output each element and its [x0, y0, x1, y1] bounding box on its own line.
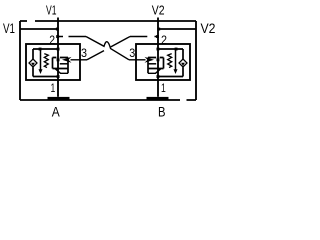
- wire V2 port line: [158, 28, 196, 30]
- arrowhead CB1 relief flow down: [39, 69, 43, 74]
- wire CB2 relief flow arrow line: [175, 49, 177, 70]
- svg-text:1: 1: [161, 81, 166, 95]
- wire pilot path A diagonal with hop: [86, 37, 129, 60]
- node junction dots: [39, 28, 178, 78]
- svg-text:2: 2: [49, 33, 55, 47]
- arrowhead CB2 pilot into body: [145, 57, 155, 63]
- node V1 left label: [3, 21, 15, 36]
- svg-text:V1: V1: [46, 3, 57, 18]
- node V1 top label: [46, 3, 57, 18]
- spring CB1: [44, 54, 48, 68]
- svg-text:V2: V2: [201, 21, 216, 36]
- label A port: [52, 104, 60, 119]
- wire V2 vertical: [157, 18, 159, 97]
- port bar A: [48, 97, 70, 101]
- svg-text:V1: V1: [3, 21, 15, 36]
- label 1 left: [51, 81, 56, 95]
- node pilot junction dot at V2: [156, 35, 159, 38]
- label 2 right: [161, 33, 167, 47]
- spring CB2: [168, 54, 172, 68]
- node V2 top label: [152, 3, 165, 18]
- wire CB2 pilot stub: [129, 59, 146, 61]
- svg-text:2: 2: [161, 33, 167, 47]
- svg-text:B: B: [158, 105, 166, 120]
- wire pilot V2 tap: [130, 36, 158, 38]
- svg-text:1: 1: [51, 81, 56, 95]
- wire CB2 inner bottom rail: [158, 76, 183, 78]
- label 2 left: [49, 33, 55, 47]
- wire boundary left: [19, 21, 21, 100]
- valve CB1 assembly box: [26, 44, 80, 80]
- wire boundary bottom rail: [20, 99, 196, 101]
- wire V1 port line: [20, 28, 58, 30]
- label 3 right: [129, 46, 135, 60]
- wire CB1 inner bottom rail: [33, 76, 58, 78]
- port bar B: [147, 97, 169, 101]
- check valve CB1 poppet: [31, 63, 35, 66]
- check valve CB2 diamond: [179, 59, 187, 67]
- label B port: [158, 105, 166, 120]
- svg-text:3: 3: [129, 46, 135, 60]
- valve CB1 body box: [53, 58, 69, 74]
- valve CB2 body inner line: [148, 63, 156, 65]
- wire pilot path B diagonal broken under hop: [87, 37, 130, 60]
- wire CB1 pilot stub: [71, 59, 88, 61]
- node pilot junction dot at V1: [56, 35, 59, 38]
- wire CB2 check branch lower: [182, 67, 184, 76]
- valve CB1 body inner line: [60, 63, 68, 65]
- arrowhead CB2 relief flow down: [174, 69, 178, 74]
- wire CB1 check branch upper: [32, 49, 34, 59]
- label 3 left: [81, 46, 87, 60]
- wire CB2 check branch upper: [182, 49, 184, 59]
- check valve CB1 diamond: [29, 59, 37, 67]
- valve CB2 body box: [148, 58, 164, 74]
- wire boundary right: [195, 21, 197, 100]
- arrowhead CB1 pilot into body: [62, 57, 72, 63]
- wire CB1 check branch lower: [32, 67, 34, 76]
- wire boundary top rail: [20, 20, 196, 22]
- svg-text:3: 3: [81, 46, 87, 60]
- wire CB1 inner top rail: [33, 48, 58, 50]
- valve CB2 drain pocket: [148, 69, 161, 74]
- node V2 right label: [201, 21, 216, 36]
- check valve CB2 poppet: [181, 63, 185, 66]
- valve CB2 assembly box: [136, 44, 190, 80]
- svg-text:A: A: [52, 104, 60, 119]
- wire V1 vertical: [57, 18, 59, 97]
- wire CB2 inner top rail: [158, 48, 183, 50]
- label 1 right: [161, 81, 166, 95]
- svg-text:V2: V2: [152, 3, 165, 18]
- wire pilot V1 tap: [58, 36, 86, 38]
- valve CB1 drain pocket: [55, 69, 68, 74]
- wire CB1 relief flow arrow line: [40, 49, 42, 70]
